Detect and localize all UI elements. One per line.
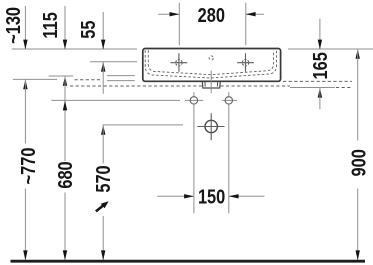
dim 280 line right tail bbox=[246, 13, 264, 15]
fixing bolt B1 circle bbox=[190, 97, 197, 104]
bolt B2 extension line down bbox=[228, 104, 230, 213]
node 570-reference line bbox=[103, 124, 183, 126]
wire hidden basin bottom extension right bbox=[283, 80, 352, 82]
svg-text:165: 165 bbox=[308, 52, 331, 79]
faucet hole F2 circle bbox=[242, 60, 248, 66]
wire long hidden line under basin right bbox=[220, 85, 290, 87]
faucet hole F1 circle bbox=[176, 60, 182, 66]
dim 150 arrow right bbox=[229, 194, 239, 198]
dim 55 lower tail bbox=[102, 62, 104, 94]
bolt B1 extension line down bbox=[193, 104, 195, 213]
dim 680 arrow up at bolt line bbox=[63, 101, 67, 111]
dim 165 arrow down bbox=[318, 40, 322, 50]
dim 570 leader arrow NE bbox=[96, 205, 104, 211]
drain centerline bbox=[210, 71, 212, 94]
dim 130 arrow up at siphon line bbox=[23, 79, 27, 89]
dim 900 arrow up at rim bbox=[356, 49, 360, 59]
drain box inner walls bbox=[205, 82, 218, 87]
basin inner bowl hidden wall second bbox=[148, 50, 273, 74]
dim 900 line upper segment bbox=[357, 49, 359, 141]
dim 680 line upper segment bbox=[64, 76, 66, 161]
wire 165-reference dashed continuation bbox=[336, 87, 352, 89]
fixing bolt B1 stem bbox=[193, 92, 195, 96]
faucet hole F1 cross bbox=[171, 53, 188, 72]
node 115-reference line right bbox=[107, 75, 135, 77]
dim 570 arrow at floor bbox=[101, 250, 105, 260]
basin outline bbox=[143, 49, 281, 82]
dim 165 line upper bbox=[319, 19, 321, 49]
fixing bolt B2 circle bbox=[225, 97, 232, 104]
drain box bbox=[202, 82, 220, 88]
dim 115 arrow down bbox=[63, 40, 67, 50]
node 165-reference line solid bbox=[290, 87, 335, 89]
svg-text:55: 55 bbox=[76, 20, 99, 38]
dim 165 lower tail bbox=[319, 88, 321, 109]
dim 770 line lower segment bbox=[24, 189, 26, 260]
svg-text:280: 280 bbox=[198, 3, 225, 26]
faucet hole F2 cross bbox=[237, 53, 254, 72]
dim 770 arrow at floor bbox=[23, 250, 27, 260]
node bolt axis line bbox=[52, 99, 181, 101]
overflow hidden circle bbox=[209, 56, 213, 60]
dim 55 line upper bbox=[102, 12, 104, 49]
wire rim extension line right bbox=[288, 48, 373, 50]
wire long hidden line under basin left bbox=[70, 85, 202, 87]
fixing bolt B2 stem bbox=[228, 92, 230, 96]
dim 280 line left tail bbox=[158, 13, 179, 15]
svg-text:900: 900 bbox=[347, 149, 370, 176]
node lower reference line bbox=[107, 80, 135, 82]
svg-text:570: 570 bbox=[92, 165, 115, 192]
node 55-reference line bbox=[90, 61, 137, 63]
node 130-reference line bbox=[13, 78, 57, 80]
dim 55 arrow down bbox=[101, 40, 105, 50]
dim 115 line upper bbox=[64, 6, 66, 49]
dim 570 arrow up bbox=[101, 125, 105, 135]
water supply symbol cross bbox=[197, 113, 224, 140]
floor line bbox=[11, 260, 366, 263]
dim 770 line upper segment bbox=[24, 79, 26, 143]
dim 55 arrow up bbox=[101, 62, 105, 72]
svg-text:~770: ~770 bbox=[16, 148, 39, 185]
dim 150 line right tail bbox=[229, 195, 265, 197]
wire rim extension line left bbox=[12, 48, 137, 50]
dim 570 line lower segment bbox=[102, 216, 104, 260]
wire dashed mid segment bbox=[75, 79, 102, 81]
dim 680 arrow at floor bbox=[63, 250, 67, 260]
basin inner bowl hidden wall left bbox=[145, 50, 276, 78]
water supply symbol circle bbox=[205, 120, 217, 132]
dim 900 line lower segment bbox=[357, 189, 359, 260]
dim 130 line upper bbox=[24, 6, 26, 49]
dim 150 arrow left bbox=[184, 194, 194, 198]
node 115-reference line left bbox=[49, 75, 74, 77]
dim 115 arrow up bbox=[63, 76, 67, 86]
svg-text:150: 150 bbox=[198, 185, 225, 208]
svg-text:~130: ~130 bbox=[2, 7, 25, 44]
dim 280 arrow left bbox=[170, 12, 180, 16]
wire bolt 1 axis tick bbox=[185, 99, 203, 101]
dim 280 arrow right bbox=[246, 12, 256, 16]
svg-text:115: 115 bbox=[39, 12, 62, 38]
dim 680 line lower segment bbox=[64, 193, 66, 260]
dim 150 line left tail bbox=[157, 195, 194, 197]
svg-text:680: 680 bbox=[53, 161, 76, 188]
dim 165 arrow up bbox=[318, 88, 322, 98]
dim 280 extension line right bbox=[245, 3, 247, 46]
wire bolt 2 axis tick bbox=[222, 99, 237, 101]
dim 900 arrow at floor bbox=[356, 250, 360, 260]
dim 280 extension line left bbox=[178, 3, 180, 46]
dim 570 line upper segment bbox=[102, 125, 104, 164]
dim 130 arrow down bbox=[23, 40, 27, 50]
